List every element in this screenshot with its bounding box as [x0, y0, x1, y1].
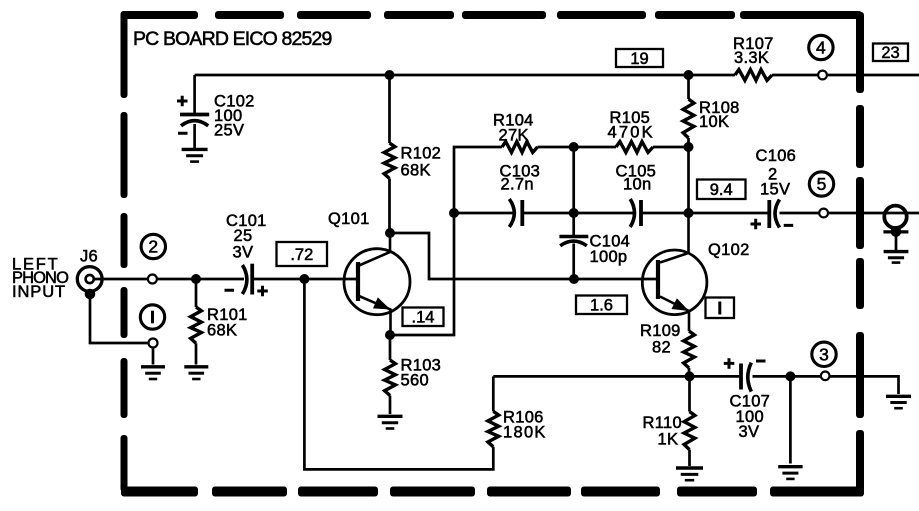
- svg-text:82: 82: [652, 339, 671, 357]
- box 1: [706, 298, 735, 319]
- resistor R109: [684, 331, 695, 368]
- wire emitter node row: [493, 375, 740, 378]
- wire Q101 emitter to feedback node: [390, 147, 502, 335]
- svg-text:23: 23: [881, 44, 899, 62]
- svg-text:25V: 25V: [214, 122, 244, 140]
- connector number 3: [812, 342, 836, 366]
- dashed PC board outline EICO 82529: [121, 11, 865, 497]
- wire C104 bottom lead: [572, 244, 575, 280]
- wire R103 to ground: [389, 396, 392, 415]
- svg-text:.14: .14: [412, 309, 435, 327]
- svg-text:1.6: 1.6: [590, 297, 613, 315]
- wire mid row left: [454, 212, 514, 215]
- ground right of terminal 3: [886, 395, 911, 398]
- wire R108 to feedback node: [687, 138, 690, 213]
- jack J6: [77, 267, 102, 292]
- wire R105 to R108 node: [653, 146, 689, 149]
- wire output jack to ground: [895, 234, 898, 250]
- svg-text:10K: 10K: [699, 113, 729, 131]
- wire C105 to Q102 collector node: [641, 212, 769, 215]
- polarity marks C106: [751, 219, 794, 230]
- svg-text:R110: R110: [643, 414, 682, 432]
- junction dot Q102 collector node: [684, 208, 694, 218]
- box 19: [616, 49, 663, 67]
- box 23: [873, 44, 908, 62]
- wire base node to R106: [304, 279, 493, 469]
- wire after C107: [753, 376, 899, 394]
- box .14: [403, 308, 444, 327]
- svg-text:C106: C106: [756, 147, 797, 165]
- capacitor C102 plates: [180, 113, 209, 117]
- box 9.4: [697, 180, 746, 200]
- wire R109 to emitter node: [688, 368, 691, 376]
- svg-text:PC BOARD EICO 82529: PC BOARD EICO 82529: [133, 28, 331, 50]
- terminal circle 5: [819, 209, 828, 218]
- wire C102 negative lead: [193, 124, 196, 148]
- polarity marks C101: [225, 286, 268, 297]
- junction dot Q101 base node: [299, 274, 309, 284]
- junction dot C107 ground branch: [785, 371, 795, 381]
- wire R101 bottom lead: [195, 343, 198, 364]
- junction dot C104 base node: [569, 274, 579, 284]
- svg-text:470K: 470K: [608, 124, 655, 142]
- resistor R110: [684, 412, 695, 450]
- wire terminal 1 to ground: [152, 348, 155, 365]
- connector number 5: [809, 172, 833, 196]
- connector number 1: [140, 305, 164, 329]
- resistor R106: [488, 411, 499, 446]
- wire rail to R108: [687, 75, 690, 99]
- ground R110: [676, 466, 703, 469]
- transistor Q102 base bar: [656, 260, 660, 299]
- transistor Q101 base bar: [356, 262, 360, 301]
- junction dot Q101 collector: [385, 228, 395, 238]
- resistor R108: [683, 99, 694, 138]
- capacitor C106 plates: [767, 200, 771, 228]
- resistor R107: [735, 70, 772, 81]
- ground output jack: [884, 250, 909, 253]
- svg-text:5: 5: [817, 174, 827, 194]
- wire emitter node to R110: [688, 376, 691, 411]
- transistor Q102 emitter lead: [660, 297, 689, 332]
- transistor Q101 collector lead: [359, 233, 390, 266]
- capacitor C107 plates: [739, 364, 743, 390]
- resistor R101: [191, 307, 202, 343]
- wire Q101 emitter to R103: [389, 335, 392, 360]
- wire rail right of R107: [772, 74, 919, 77]
- svg-text:3V: 3V: [233, 244, 254, 262]
- resistor R103: [385, 360, 396, 396]
- wire C106 to output: [780, 212, 919, 215]
- resistor R105: [616, 142, 653, 153]
- junction dot mid row C104: [569, 208, 579, 218]
- wire R104 to node: [538, 146, 617, 149]
- wire C101 to Q101 base: [252, 278, 356, 281]
- terminal circle 3: [821, 372, 830, 381]
- svg-text:INPUT: INPUT: [12, 283, 66, 301]
- transistor Q101 emitter arrow: [373, 297, 391, 309]
- ground R101: [184, 365, 208, 368]
- wire C103 to C105: [522, 212, 633, 215]
- junction dot Q101 emitter: [385, 330, 395, 340]
- output jack: [884, 206, 906, 228]
- svg-text:R109: R109: [640, 322, 681, 340]
- capacitor C103 plates: [509, 199, 514, 227]
- junction dot rail/R108: [684, 70, 694, 80]
- ground terminal 1: [141, 365, 165, 368]
- svg-text:J6: J6: [80, 248, 98, 266]
- wire J6 tip to C101: [94, 278, 244, 281]
- svg-text:R102: R102: [401, 145, 442, 163]
- wire R102 to Q101 collector: [388, 179, 391, 234]
- svg-text:3V: 3V: [739, 423, 760, 441]
- junction dot R109/R110: [685, 371, 695, 381]
- wire J6 sleeve to terminal 1: [90, 294, 149, 343]
- svg-text:19: 19: [630, 50, 648, 68]
- svg-text:15V: 15V: [760, 181, 790, 199]
- wire R106 top lead: [492, 376, 495, 411]
- junction dot rail/R102: [385, 70, 395, 80]
- ground R103: [378, 415, 403, 418]
- svg-text:10n: 10n: [623, 175, 651, 193]
- wire C107 ground branch: [789, 376, 792, 463]
- wire rail to R102: [388, 75, 391, 143]
- junction dot R101 top: [191, 274, 201, 284]
- resistor R104: [502, 142, 538, 153]
- svg-text:9.4: 9.4: [710, 181, 733, 199]
- transistor Q102 emitter arrow: [672, 298, 690, 311]
- capacitor C104 plates: [559, 235, 588, 239]
- polarity marks C107: [724, 358, 766, 369]
- connector number 4: [809, 35, 833, 59]
- box .72: [277, 242, 328, 266]
- svg-text:1K: 1K: [658, 431, 679, 449]
- svg-text:3.3K: 3.3K: [734, 49, 769, 67]
- wire C102 positive lead: [193, 75, 196, 113]
- transistor Q102 collector lead: [660, 213, 689, 263]
- svg-text:Q101: Q101: [328, 210, 370, 228]
- wire C104 top lead: [572, 147, 575, 235]
- svg-text:560: 560: [401, 372, 429, 390]
- svg-text:2.7n: 2.7n: [501, 175, 534, 193]
- svg-text:2: 2: [148, 237, 158, 257]
- svg-text:100p: 100p: [590, 248, 628, 266]
- transistor Q102 circle: [642, 250, 707, 315]
- svg-text:25: 25: [234, 227, 253, 245]
- terminal circle 4: [818, 71, 827, 80]
- svg-text:.72: .72: [290, 246, 313, 264]
- wire +supply rail: [195, 74, 735, 77]
- polarity marks C102: [177, 96, 188, 134]
- svg-text:4: 4: [816, 38, 826, 58]
- wire R101 top lead: [195, 279, 198, 307]
- connector number 2: [141, 234, 165, 258]
- terminal circle 1: [149, 339, 158, 348]
- junction dot R105/R108: [684, 142, 694, 152]
- terminal circle 2: [148, 275, 157, 284]
- capacitor C105 plates: [630, 199, 634, 227]
- svg-text:27K: 27K: [499, 127, 529, 145]
- transistor Q101 emitter lead: [359, 296, 391, 335]
- ground C107 branch: [778, 465, 802, 468]
- svg-text:3: 3: [819, 345, 829, 365]
- transistor Q101 circle: [344, 249, 410, 315]
- svg-text:Q102: Q102: [708, 241, 750, 259]
- junction dot J6 sleeve: [85, 289, 96, 300]
- junction dot output jack sleeve: [891, 226, 902, 237]
- wire Q101 collector to Q102 base: [390, 233, 656, 279]
- ground C102: [182, 148, 208, 151]
- svg-text:68K: 68K: [207, 322, 237, 340]
- junction dot C104 top: [569, 142, 579, 152]
- wire R110 to ground: [688, 450, 691, 466]
- resistor R102: [384, 143, 395, 179]
- capacitor C101 plates: [242, 265, 247, 294]
- junction dot feedback mid row: [449, 208, 459, 218]
- svg-text:68K: 68K: [401, 162, 431, 180]
- box 1.6: [576, 296, 627, 315]
- svg-text:180K: 180K: [503, 424, 547, 442]
